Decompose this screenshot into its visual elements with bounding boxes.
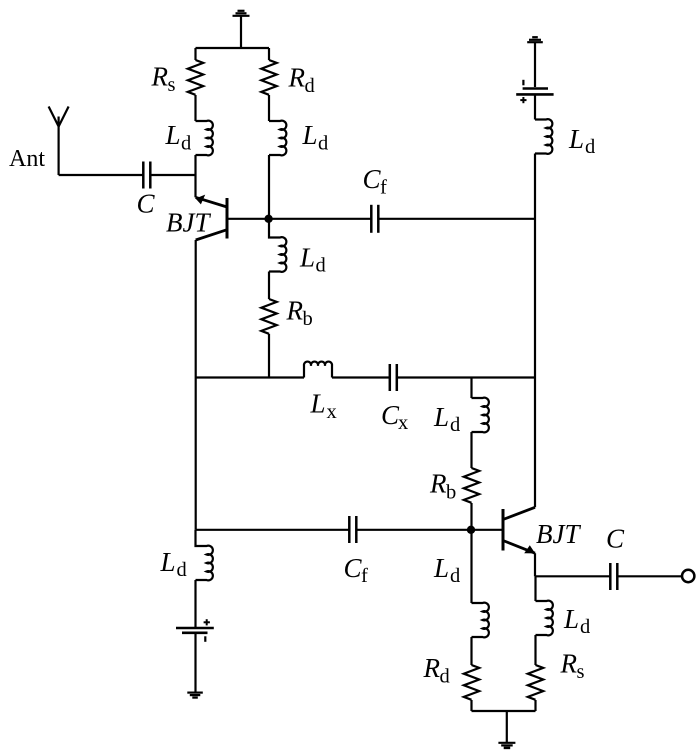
node Q1 base junction [264, 215, 272, 223]
svg-text:x: x [327, 401, 337, 423]
label Rs [151, 62, 176, 97]
svg-text:f: f [361, 565, 368, 587]
svg-text:d: d [316, 255, 326, 277]
svg-text:BJT: BJT [536, 519, 581, 549]
wire Q2 emitter to Ld [534, 576, 536, 601]
wire Cf to right rail [378, 218, 535, 220]
svg-text:L: L [568, 124, 584, 154]
wire Rd to Ld [268, 95, 270, 121]
label Rb (Q2 bias) [429, 469, 456, 504]
label Cf (bottom) [344, 553, 369, 587]
wire mid rail to Ld branch [470, 378, 472, 399]
label Ld (Q1 collector bias) [160, 547, 187, 581]
resistor Rb (Q2 bias) [464, 468, 479, 503]
resistor Rd (bottom) [464, 665, 479, 700]
svg-text:b: b [446, 482, 456, 504]
wire lower rail (collector Q1 to Q2 base) [196, 529, 350, 531]
node output terminal [682, 570, 694, 582]
capacitor C (output) [610, 563, 617, 590]
svg-text:d: d [440, 666, 450, 688]
battery V1 (top right) [516, 80, 553, 103]
wire Cx to right rail [397, 376, 535, 378]
svg-text:d: d [305, 75, 315, 97]
svg-text:L: L [433, 553, 449, 583]
label Rd (top) [288, 63, 315, 98]
svg-text:BJT: BJT [166, 208, 211, 238]
transistor Q2 BJT [503, 507, 535, 553]
wire battery to Ld [534, 94, 536, 119]
wire bottom rail [472, 710, 536, 712]
svg-text:R: R [151, 62, 169, 92]
svg-text:L: L [165, 120, 181, 150]
svg-text:d: d [177, 559, 187, 581]
wire mid rail left [196, 376, 305, 378]
wire C to emitter [150, 174, 195, 176]
label Ld (drain branch top) [302, 120, 329, 155]
svg-text:R: R [288, 63, 306, 93]
wire Rd to bottom rail [470, 700, 472, 711]
label Cx [381, 400, 408, 434]
svg-text:C: C [137, 189, 156, 219]
wire top rail [196, 47, 270, 49]
wire Ld to battery [194, 580, 196, 628]
svg-text:R: R [560, 649, 578, 679]
capacitor Cf (top feedback) [371, 205, 378, 233]
svg-text:L: L [563, 604, 579, 634]
svg-text:f: f [380, 177, 387, 199]
wire Rs to Ld [194, 95, 196, 121]
wire Q1 collector rail [195, 240, 197, 530]
wire Ld to Rs [534, 635, 536, 665]
wire Cf to Q2 base [356, 529, 503, 531]
transistor Q1 BJT [196, 195, 228, 240]
label Ld (Q2 drain lower) [433, 553, 460, 587]
label Rs (bottom) [560, 649, 585, 684]
svg-text:x: x [398, 412, 408, 434]
ground (top right, battery) [527, 37, 543, 87]
svg-text:C: C [363, 164, 382, 194]
capacitor C (input) [143, 162, 150, 189]
wire Rb to mid rail [268, 334, 270, 378]
resistor Rs [188, 60, 203, 95]
svg-text:C: C [344, 553, 363, 583]
wire Lx to Cx [332, 376, 390, 378]
svg-text:d: d [181, 133, 191, 155]
wire left branch lead [194, 48, 196, 60]
inductor Ld (drain branch top) [269, 121, 286, 156]
wire Rs to bottom rail [534, 700, 536, 711]
label Ld (Q2 bias upper) [433, 402, 460, 436]
wire antenna to C [59, 174, 144, 176]
resistor Rd (top) [261, 60, 276, 95]
svg-text:s: s [577, 661, 585, 683]
wire Ld to Rb [470, 432, 472, 468]
label Rb (Q1 bias) [286, 296, 313, 331]
wire Q2 base node to Ld [470, 530, 472, 603]
svg-text:d: d [318, 133, 328, 155]
wire C to terminal [617, 575, 682, 577]
svg-text:L: L [433, 402, 449, 432]
label Ld (below base node) [299, 243, 326, 277]
label Rd (bottom) [423, 653, 450, 688]
inductor Ld (below base node) [269, 219, 286, 272]
wire Ld to Rd [470, 637, 472, 665]
label Ld (Q2 emitter) [563, 604, 590, 638]
wire Ld to base node [268, 155, 270, 219]
label Lx [310, 389, 337, 424]
svg-text:s: s [168, 74, 176, 96]
ground (bottom right) [498, 743, 515, 748]
svg-text:C: C [606, 524, 625, 554]
svg-text:R: R [423, 653, 441, 683]
inductor Ld (Q2 drain lower) [472, 603, 489, 638]
svg-text:R: R [286, 296, 304, 326]
svg-text:L: L [160, 547, 176, 577]
inductor Ld (Q2 emitter) [536, 601, 553, 636]
svg-text:d: d [450, 414, 460, 436]
capacitor Cf (bottom feedback) [349, 516, 356, 543]
inductor Ld (input source branch) [196, 121, 213, 156]
svg-text:b: b [303, 308, 313, 330]
battery V2 (bottom left) [176, 619, 214, 642]
svg-text:d: d [450, 565, 460, 587]
resistor Rs (bottom) [528, 665, 543, 700]
label Ld (top right supply) [568, 124, 595, 158]
wire right rail [534, 154, 536, 508]
wire bottom ground stem [506, 711, 508, 743]
wire Rb to base node [470, 503, 472, 530]
svg-text:L: L [302, 120, 318, 150]
node Q2 base junction [467, 526, 475, 534]
inductor Ld (Q2 bias upper) [472, 398, 489, 433]
wire Q2 emitter lead [534, 553, 536, 576]
wire output [535, 575, 610, 577]
ground (bottom left) [187, 693, 203, 698]
wire Ld to emitter node [194, 155, 196, 197]
wire battery to ground [194, 633, 196, 693]
svg-text:d: d [580, 616, 590, 638]
svg-text:L: L [299, 243, 315, 273]
inductor Lx [304, 362, 332, 378]
label Cf (top) [363, 164, 388, 199]
wire Q1 base [227, 218, 269, 220]
antenna [49, 107, 69, 176]
inductor Ld (top right supply) [535, 119, 552, 154]
wire base node to Cf [269, 218, 372, 220]
wire right branch lead [268, 48, 270, 60]
label Ld (input source branch) [165, 120, 192, 155]
resistor Rb (Q1 bias) [261, 299, 276, 334]
wire Ld to Rb [268, 272, 270, 300]
inductor Ld (Q1 collector bias) [196, 530, 213, 581]
svg-text:Ant: Ant [9, 146, 45, 172]
svg-text:d: d [585, 136, 595, 158]
ground (top, at VDD rail) [233, 11, 250, 48]
svg-text:L: L [310, 389, 326, 419]
capacitor Cx [390, 364, 397, 391]
svg-text:R: R [429, 469, 447, 499]
